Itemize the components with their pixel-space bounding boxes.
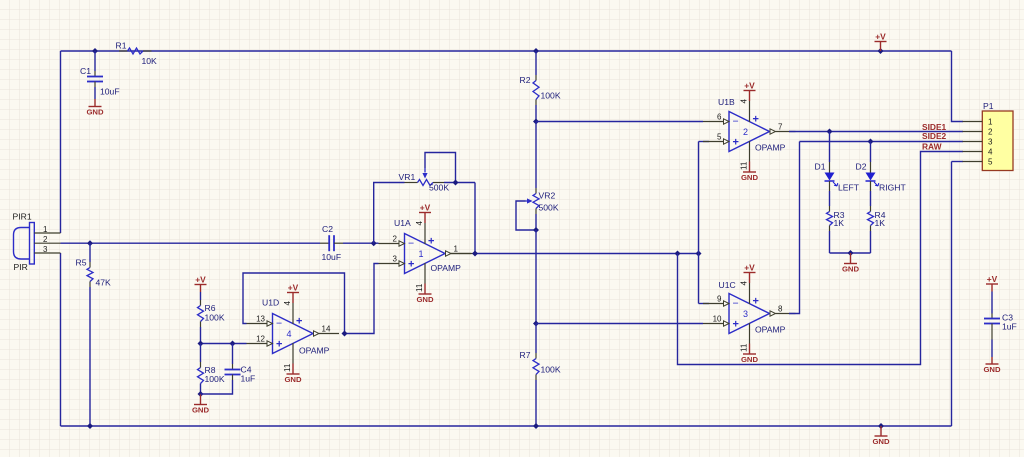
svg-text:+V: +V bbox=[875, 32, 886, 42]
svg-text:GND: GND bbox=[192, 406, 210, 415]
wire U1B pin6 net bbox=[536, 121, 703, 123]
wire C3 top lead bbox=[991, 292, 993, 319]
net label RAW bbox=[922, 142, 942, 152]
resistor R8 bbox=[198, 365, 225, 384]
svg-text:4: 4 bbox=[740, 99, 749, 104]
svg-text:1: 1 bbox=[988, 118, 993, 127]
wire VR2 wiper loop bbox=[516, 201, 536, 230]
ground C3 bbox=[983, 357, 1001, 374]
svg-text:2: 2 bbox=[393, 235, 398, 244]
net label SIDE2 bbox=[922, 131, 947, 141]
wire SIDE2 run bbox=[800, 141, 964, 143]
svg-text:U1D: U1D bbox=[262, 298, 279, 308]
node U1D output junction bbox=[342, 331, 348, 337]
wire VR1 wiper loop bbox=[425, 153, 456, 183]
node R8 C4 ground junction bbox=[198, 391, 204, 397]
node pin5/pin9 branch junction bbox=[696, 251, 702, 257]
svg-text:5: 5 bbox=[717, 133, 722, 142]
pin P1 1 bbox=[963, 118, 994, 127]
wire R8 bottom lead bbox=[200, 362, 202, 394]
svg-text:GND: GND bbox=[741, 173, 759, 182]
pin PIR1 2 bbox=[34, 235, 60, 244]
wire U1D out to U1A pin3 bbox=[345, 264, 379, 334]
svg-text:4: 4 bbox=[988, 148, 993, 157]
svg-text:R2: R2 bbox=[520, 75, 531, 85]
svg-text:11: 11 bbox=[415, 283, 424, 292]
svg-text:+: + bbox=[296, 316, 302, 328]
svg-text:100K: 100K bbox=[205, 313, 225, 323]
capacitor C4 bbox=[225, 344, 256, 384]
node U1C pin10 junction bbox=[533, 321, 539, 327]
wire R6 top lead bbox=[200, 292, 202, 306]
svg-text:14: 14 bbox=[322, 324, 331, 333]
svg-text:3: 3 bbox=[743, 309, 748, 319]
connector P1 bbox=[982, 101, 1013, 171]
svg-text:R5: R5 bbox=[76, 258, 87, 268]
svg-text:GND: GND bbox=[284, 375, 302, 384]
svg-text:GND: GND bbox=[842, 265, 860, 274]
node VR2 bottom junction bbox=[533, 227, 539, 233]
svg-text:LEFT: LEFT bbox=[838, 183, 860, 193]
ground diodes bbox=[842, 253, 860, 274]
svg-text:1K: 1K bbox=[834, 218, 845, 228]
svg-text:4: 4 bbox=[415, 221, 424, 226]
svg-text:+V: +V bbox=[288, 283, 299, 293]
wire feedback up-left bbox=[374, 183, 405, 244]
wire mid rail VR2 to pin10 junction bbox=[535, 230, 537, 324]
node U1A output junction bbox=[472, 251, 478, 257]
wire R7 bottom lead bbox=[535, 375, 537, 427]
svg-text:+: + bbox=[276, 338, 282, 350]
svg-text:47K: 47K bbox=[96, 278, 112, 288]
node R6 R8 junction bbox=[198, 341, 204, 347]
capacitor C3 bbox=[984, 313, 1017, 332]
wire U1D feedback loop bbox=[243, 273, 345, 334]
svg-text:GND: GND bbox=[86, 108, 104, 117]
potentiometer VR1 bbox=[399, 168, 450, 193]
op-amp U1C bbox=[703, 263, 796, 365]
svg-text:100K: 100K bbox=[541, 91, 561, 101]
svg-text:RAW: RAW bbox=[922, 142, 942, 152]
wire C1 lower lead bbox=[94, 82, 96, 100]
svg-text:+V: +V bbox=[744, 81, 755, 91]
op-amp U1A bbox=[379, 203, 472, 305]
pin P1 3 bbox=[963, 138, 994, 147]
wire U1B output SIDE1 bbox=[789, 131, 963, 133]
wire C4 bottom bbox=[201, 375, 233, 395]
wire left rail upper bbox=[60, 51, 62, 233]
svg-text:SIDE2: SIDE2 bbox=[922, 131, 947, 141]
svg-text:12: 12 bbox=[256, 335, 265, 344]
pin P1 2 bbox=[963, 128, 994, 137]
wire R8 top lead bbox=[200, 344, 202, 363]
svg-text:+V: +V bbox=[987, 274, 998, 284]
resistor R2 bbox=[520, 75, 561, 101]
resistor R5 bbox=[76, 243, 112, 287]
svg-text:10uF: 10uF bbox=[322, 252, 342, 262]
diode D1 with resistor R3 bbox=[815, 132, 860, 254]
pin P1 4 bbox=[963, 148, 994, 157]
+V C3 bbox=[986, 274, 998, 292]
svg-text:−: − bbox=[733, 116, 739, 128]
node R7 ground-rail junction bbox=[533, 423, 539, 429]
svg-text:+V: +V bbox=[195, 275, 206, 285]
svg-text:GND: GND bbox=[983, 365, 1001, 374]
wire rail R1 left lead bbox=[119, 50, 128, 52]
svg-text:GND: GND bbox=[741, 355, 759, 364]
wire D1 D2 ground link bbox=[830, 252, 871, 254]
wire VR2 bottom lead bbox=[535, 209, 537, 231]
svg-text:10K: 10K bbox=[142, 56, 158, 66]
svg-text:10: 10 bbox=[713, 315, 722, 324]
svg-text:+: + bbox=[753, 296, 759, 308]
svg-text:+V: +V bbox=[744, 263, 755, 273]
svg-text:1: 1 bbox=[419, 249, 424, 259]
wire U1C output to SIDE2 bbox=[789, 142, 800, 314]
connector PIR1 bbox=[13, 212, 35, 273]
svg-text:1: 1 bbox=[43, 225, 48, 234]
svg-text:+: + bbox=[408, 258, 414, 270]
wire R2 bottom lead bbox=[535, 100, 537, 122]
svg-text:U1A: U1A bbox=[394, 218, 411, 228]
node VR1 feedback tap bbox=[371, 240, 377, 246]
svg-text:1: 1 bbox=[454, 244, 459, 253]
wire U1D pin12 net bbox=[201, 343, 247, 345]
op-amp U1D bbox=[247, 283, 340, 385]
svg-text:3: 3 bbox=[988, 138, 993, 147]
svg-text:R7: R7 bbox=[520, 350, 531, 360]
svg-text:13: 13 bbox=[256, 315, 265, 324]
svg-text:PIR1: PIR1 bbox=[13, 212, 32, 222]
node R5 tap bbox=[87, 240, 93, 246]
node +V rail tap bbox=[878, 48, 884, 54]
wire bottom ground rail bbox=[61, 425, 952, 427]
wire R5 bottom lead bbox=[89, 282, 91, 427]
svg-text:OPAMP: OPAMP bbox=[755, 325, 786, 335]
ground C1 bbox=[86, 99, 104, 117]
wire mid rail to R7 bbox=[535, 324, 537, 359]
svg-text:4: 4 bbox=[740, 281, 749, 286]
svg-text:100K: 100K bbox=[541, 365, 561, 375]
node R5 ground-rail junction bbox=[87, 423, 93, 429]
svg-text:6: 6 bbox=[717, 113, 722, 122]
wire RAW route bbox=[678, 152, 964, 365]
svg-text:OPAMP: OPAMP bbox=[299, 346, 330, 356]
svg-text:10uF: 10uF bbox=[100, 87, 120, 97]
diode D2 with resistor R4 bbox=[856, 142, 907, 254]
svg-text:OPAMP: OPAMP bbox=[431, 263, 462, 273]
op-amp U1B bbox=[703, 81, 796, 183]
wire C2 right lead bbox=[334, 242, 343, 244]
node R2 / U1B pin6 junction bbox=[533, 119, 539, 125]
net label SIDE1 bbox=[922, 122, 947, 132]
pin PIR1 1 bbox=[34, 225, 60, 234]
svg-text:U1C: U1C bbox=[719, 280, 736, 290]
svg-text:C1: C1 bbox=[80, 66, 91, 76]
svg-text:D1: D1 bbox=[815, 162, 826, 172]
svg-text:1K: 1K bbox=[875, 218, 886, 228]
svg-text:+: + bbox=[733, 318, 739, 330]
svg-text:4: 4 bbox=[283, 301, 292, 306]
svg-text:500K: 500K bbox=[539, 203, 559, 213]
wire U1A out to U1B pin5 bbox=[698, 142, 700, 304]
svg-text:100K: 100K bbox=[205, 374, 225, 384]
svg-text:9: 9 bbox=[717, 295, 722, 304]
svg-text:PIR: PIR bbox=[14, 262, 28, 272]
svg-text:2: 2 bbox=[743, 127, 748, 137]
svg-text:11: 11 bbox=[740, 161, 749, 170]
svg-text:−: − bbox=[733, 298, 739, 310]
capacitor C2 bbox=[322, 224, 342, 262]
svg-text:4: 4 bbox=[287, 329, 292, 339]
svg-text:3: 3 bbox=[393, 255, 398, 264]
potentiometer VR2 bbox=[526, 191, 559, 213]
wire VR1 right lead bbox=[433, 182, 444, 184]
wire left rail lower bbox=[60, 253, 62, 426]
node C1 tap on +V rail bbox=[92, 48, 98, 54]
ground R8 bbox=[192, 394, 210, 415]
svg-text:1uF: 1uF bbox=[241, 374, 256, 384]
svg-text:VR2: VR2 bbox=[539, 191, 556, 201]
node bottom rail ground tap bbox=[878, 423, 884, 429]
wire C3 bottom lead bbox=[991, 324, 993, 358]
svg-text:OPAMP: OPAMP bbox=[755, 143, 786, 153]
wire U1B pin5 stub bbox=[699, 141, 710, 143]
wire top +V rail bbox=[61, 50, 952, 52]
node D2 tap bbox=[868, 139, 874, 145]
wire right corner to P1 pin 1 bbox=[952, 51, 964, 122]
svg-text:11: 11 bbox=[283, 363, 292, 372]
node C4 tap bbox=[230, 341, 236, 347]
svg-text:−: − bbox=[408, 238, 414, 250]
svg-text:2: 2 bbox=[43, 235, 48, 244]
svg-text:2: 2 bbox=[988, 128, 993, 137]
svg-text:R6: R6 bbox=[205, 303, 216, 313]
svg-text:1uF: 1uF bbox=[1002, 322, 1017, 332]
svg-text:5: 5 bbox=[988, 158, 993, 167]
wire VR1 left lead bbox=[405, 182, 418, 184]
wire rail R1 right lead bbox=[143, 50, 152, 52]
wire U1A output bbox=[451, 253, 699, 255]
wire C1 upper lead bbox=[94, 51, 96, 77]
node D1 tap bbox=[827, 129, 833, 135]
svg-text:RIGHT: RIGHT bbox=[879, 183, 906, 193]
ground bottom rail bbox=[872, 426, 890, 446]
svg-text:GND: GND bbox=[872, 437, 890, 446]
svg-text:500K: 500K bbox=[429, 183, 449, 193]
wire U1C pin9 stub bbox=[699, 303, 710, 305]
svg-text:+V: +V bbox=[420, 203, 431, 213]
resistor R7 bbox=[520, 350, 561, 375]
svg-text:3: 3 bbox=[43, 245, 48, 254]
wire C2 to U1A pin2 bbox=[343, 242, 379, 244]
wire U1C pin10 net bbox=[536, 323, 703, 325]
svg-text:R1: R1 bbox=[116, 41, 127, 51]
svg-text:GND: GND bbox=[416, 295, 434, 304]
wire mid rail top segment bbox=[535, 51, 537, 81]
svg-text:U1B: U1B bbox=[718, 97, 735, 107]
svg-text:−: − bbox=[276, 318, 282, 330]
svg-text:8: 8 bbox=[778, 304, 783, 313]
svg-text:+: + bbox=[428, 236, 434, 248]
wire VR1 to output corner bbox=[444, 183, 475, 254]
svg-text:11: 11 bbox=[740, 343, 749, 352]
node diode ground junction bbox=[848, 250, 854, 256]
+V top rail bbox=[875, 32, 887, 52]
resistor R6 bbox=[198, 303, 225, 323]
pin PIR1 3 bbox=[34, 245, 60, 254]
node mid rail tap on +V rail bbox=[533, 48, 539, 54]
wire mid rail to VR2 bbox=[535, 122, 537, 194]
svg-text:P1: P1 bbox=[983, 101, 994, 111]
pin P1 5 bbox=[963, 158, 994, 167]
svg-text:VR1: VR1 bbox=[399, 172, 416, 182]
capacitor C1 bbox=[80, 66, 120, 97]
node RAW branch junction bbox=[675, 251, 681, 257]
wire PIR pin2 signal bbox=[61, 242, 321, 244]
node VR1 loop junction bbox=[453, 180, 459, 186]
+V R6 top bbox=[195, 275, 207, 293]
svg-text:D2: D2 bbox=[856, 162, 867, 172]
wire C2 left lead bbox=[320, 242, 329, 244]
resistor R1 bbox=[116, 41, 158, 67]
svg-text:7: 7 bbox=[778, 122, 783, 131]
wire R6 bottom lead bbox=[200, 322, 202, 344]
svg-text:+: + bbox=[753, 114, 759, 126]
svg-text:+: + bbox=[733, 136, 739, 148]
svg-text:C2: C2 bbox=[322, 224, 333, 234]
wire P1 pin 5 to ground rail bbox=[952, 162, 964, 427]
